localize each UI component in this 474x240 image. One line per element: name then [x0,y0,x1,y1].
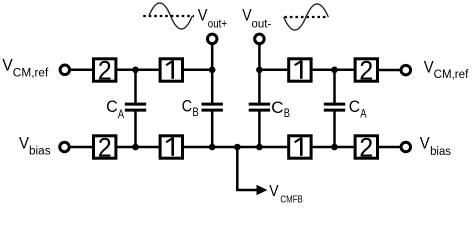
wire: switch S1a to V_out+ node [184,69,212,72]
svg-text:C: C [349,97,360,116]
node: V_out- on top rail [256,67,263,74]
wire: V_out- node to switch S1b [259,69,288,72]
node: bottom rail / CB right [256,144,263,151]
wire: V_CMFB tap elbow with arrow [237,147,267,195]
node: V_out+ on top rail [209,67,216,74]
switch S2c (phase 2, bottom left) [94,133,116,163]
svg-text:2: 2 [359,55,373,85]
wire: V_out- terminal down to top rail and capacitor CB top plate [258,45,261,105]
svg-text:A: A [118,109,124,121]
wire: capacitor CA (right) bottom plate to bottom rail [333,110,336,148]
svg-text:out-: out- [252,19,272,31]
svg-text:C: C [271,98,283,117]
wire: top-left terminal to switch S2a [71,69,94,72]
switch S2b (phase 2, top right) [355,55,377,85]
svg-text:C: C [106,97,118,116]
svg-text:B: B [284,108,290,120]
wire: switch S2d to bottom-right terminal [379,146,400,149]
terminal V_out- [255,34,265,44]
wire: bottom rail from switch S1c to switch S1d [184,146,289,149]
svg-text:2: 2 [98,133,112,163]
svg-text:V: V [420,133,430,152]
terminal V_CM,ref (top left) [60,65,70,75]
terminal V_bias (bottom left) [60,142,70,152]
terminal V_CM,ref (top right) [401,65,411,75]
wire: switch S1d to switch S2d [313,146,354,149]
capacitor CB (right) [249,104,270,110]
terminal V_bias (bottom right) [401,142,411,152]
label CA (left) [106,97,124,121]
svg-text:V: V [198,5,208,24]
waveform symbol: inverted sine (V_out-) [284,4,329,30]
node: bottom rail / CA left [132,144,139,151]
wire: top rail node down to capacitor CA (left) top plate [134,70,137,105]
node: bottom rail / CA right [331,144,338,151]
switch S2d (phase 2, bottom right) [355,133,377,163]
waveform symbol: in-phase sine (V_out+) [143,3,194,29]
wire: capacitor CA (left) bottom plate to bottom rail [134,110,137,148]
label CB (right) [271,98,290,120]
label V_CM,ref (top left) [2,55,49,79]
capacitor CB (left) [202,104,223,110]
wire: switch S1b to switch S2b [313,69,354,72]
label CA (right) [349,97,367,121]
switch S1a (phase 1, top left) [160,59,182,81]
node: bottom rail / V_CMFB tap [234,144,241,151]
terminal V_out+ [207,34,217,44]
switch S2a (phase 2, top left) [94,55,116,85]
svg-text:out+: out+ [208,19,227,31]
svg-text:V: V [2,55,13,74]
svg-text:V: V [424,58,434,77]
label V_bias (bottom left) [19,133,51,157]
capacitor CA (right) [324,104,345,110]
svg-text:B: B [192,107,199,119]
wire: switch S2a to switch S1a [117,69,158,72]
node: bottom rail / CB left [209,144,216,151]
label CB (left) [182,96,199,119]
node: top rail / CA left [132,67,139,74]
svg-text:CM,ref: CM,ref [13,68,49,80]
wire: switch S2b to top-right terminal [379,69,400,72]
svg-text:bias: bias [430,146,451,158]
svg-text:A: A [360,109,367,121]
svg-text:CM,ref: CM,ref [434,69,470,81]
capacitor CA (left) [125,104,146,110]
wire: bottom-left terminal to switch S2c [71,146,94,149]
svg-text:CMFB: CMFB [280,194,302,205]
label V_CMFB [269,183,303,206]
label V_out- [242,5,271,30]
switch S1c (phase 1, bottom left) [160,136,182,158]
wire: top rail node down to capacitor CA (right) top plate [333,70,336,105]
switch S1b (phase 1, top right) [289,59,311,81]
wire: capacitor CB (right) bottom plate to bottom rail [258,110,261,148]
svg-text:V: V [19,133,30,152]
svg-text:C: C [182,96,192,115]
svg-text:2: 2 [359,133,373,163]
node: top rail / CA right [331,67,338,74]
svg-text:V: V [269,183,279,200]
wire: switch S2c to switch S1c [117,146,158,149]
svg-text:bias: bias [29,146,51,158]
wire: V_out+ terminal down to top rail and capacitor CB top plate [211,45,214,105]
label V_bias (bottom right) [420,133,451,158]
svg-text:2: 2 [98,55,112,85]
label V_CM,ref (top right) [424,58,469,81]
wire: capacitor CB (left) bottom plate to bottom rail [211,110,214,148]
switch S1d (phase 1, bottom right) [289,136,311,158]
label V_out+ [198,5,227,30]
